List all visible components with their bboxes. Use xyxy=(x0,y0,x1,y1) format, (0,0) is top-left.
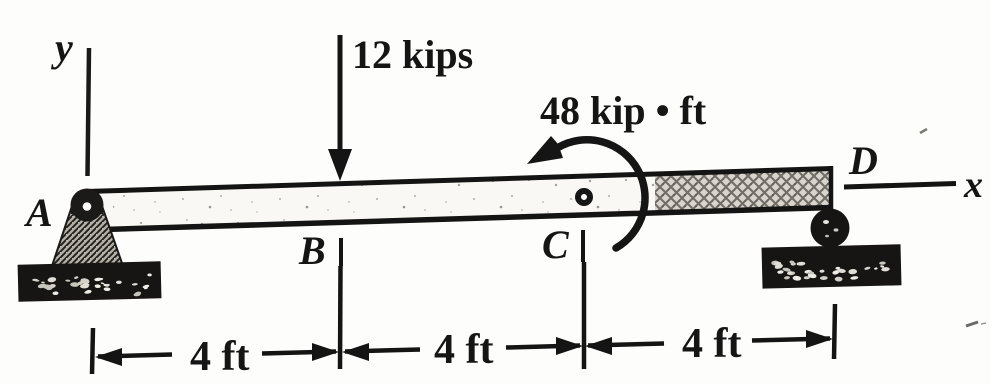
dimension tick B lower xyxy=(338,266,343,369)
pin circle A xyxy=(83,202,92,211)
svg-text:x: x xyxy=(963,164,983,206)
svg-text:D: D xyxy=(848,138,878,183)
beam bottom edge xyxy=(104,208,832,230)
dimension C-D right arrow xyxy=(752,330,833,348)
tick B upper xyxy=(339,238,343,266)
x-axis xyxy=(844,184,956,188)
dimension C-D left arrow xyxy=(585,337,664,355)
node C dot xyxy=(578,191,590,203)
beam top edge xyxy=(86,169,832,192)
svg-text:4 ft: 4 ft xyxy=(190,334,249,380)
svg-text:48 kip • ft: 48 kip • ft xyxy=(540,88,707,133)
dimension tick D xyxy=(834,304,835,359)
svg-text:4 ft: 4 ft xyxy=(434,327,493,373)
svg-text:B: B xyxy=(298,228,326,273)
roller support D xyxy=(811,209,850,248)
y-axis xyxy=(88,48,90,176)
force arrow 12 kips xyxy=(328,35,352,181)
dimension B-C right arrow xyxy=(506,337,583,355)
svg-text:A: A xyxy=(23,190,53,235)
dimension tick C lower xyxy=(582,262,587,369)
svg-text:4 ft: 4 ft xyxy=(682,321,741,367)
tick C upper xyxy=(581,230,585,262)
ground block A xyxy=(18,261,162,301)
scan noise marks xyxy=(920,129,927,133)
ground block D xyxy=(762,244,902,288)
dimension A-B left arrow xyxy=(95,348,172,366)
pin support A xyxy=(52,189,123,267)
beam xyxy=(88,168,831,231)
svg-text:y: y xyxy=(51,25,73,70)
dimension tick A xyxy=(92,328,93,374)
dimension B-C left arrow xyxy=(342,343,420,361)
svg-text:C: C xyxy=(542,222,570,267)
svg-text:12 kips: 12 kips xyxy=(352,32,473,77)
beam right end edge xyxy=(829,166,834,210)
dimension A-B right arrow xyxy=(262,343,339,361)
moment arc 48 kip·ft xyxy=(527,136,645,248)
